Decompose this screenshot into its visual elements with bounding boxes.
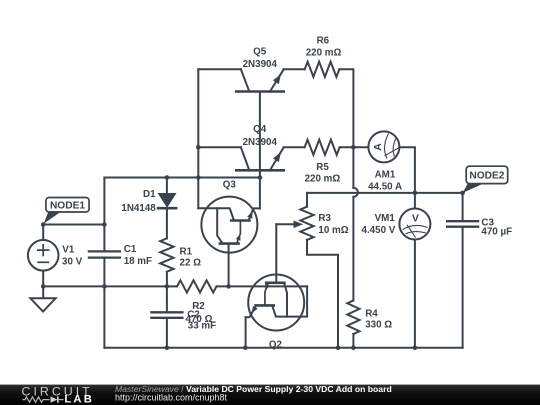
svg-text:Q2: Q2 — [269, 340, 283, 351]
label C2 name — [187, 309, 200, 320]
node NODE2 junction — [460, 191, 465, 196]
svg-text:A: A — [372, 143, 384, 151]
svg-text:NODE2: NODE2 — [469, 171, 504, 182]
transistor Q3 (darlington) — [198, 197, 260, 253]
logo CIRCUIT — [22, 384, 93, 398]
wire C2 top lead — [166, 286, 168, 311]
svg-text:R6: R6 — [317, 36, 330, 47]
node C2 bottom junction — [165, 345, 170, 350]
wire Q3 emitter top link — [259, 178, 261, 209]
label R2 value — [186, 314, 213, 325]
svg-text:NODE1: NODE1 — [50, 200, 85, 211]
wire V1 top lead — [42, 225, 44, 241]
svg-text:10 mΩ: 10 mΩ — [318, 225, 348, 236]
label R6 name — [317, 36, 330, 47]
svg-text:AM1: AM1 — [375, 170, 396, 181]
resistor R4 — [347, 301, 359, 335]
label Q5 2N3904 value — [243, 59, 278, 70]
svg-text:R4: R4 — [365, 308, 378, 319]
resistor R1 — [160, 238, 173, 271]
potentiometer R3 — [300, 207, 313, 240]
wire Q2 base lead — [275, 224, 277, 282]
label Q2 name — [269, 340, 283, 351]
wire Q4 collector lead — [198, 146, 241, 148]
wire hop over mid rail — [353, 188, 358, 197]
capacitor C3 — [447, 221, 478, 227]
label R1 name — [180, 247, 193, 258]
svg-text:33 mF: 33 mF — [188, 321, 216, 332]
svg-text:R1: R1 — [180, 247, 193, 258]
label R4 name — [365, 308, 378, 319]
label Q4 2N3904 value — [243, 137, 278, 148]
node base-rail junction — [258, 175, 263, 180]
resistor R2 — [177, 280, 217, 292]
wire D1 anode lead — [166, 178, 168, 194]
svg-text:1N4148: 1N4148 — [121, 203, 156, 214]
wire R3 top lead — [306, 193, 308, 207]
label C1 name — [124, 244, 137, 255]
label D1 name — [143, 189, 156, 200]
wire R1 bottom lead — [166, 272, 168, 287]
node NODE1 flag — [44, 198, 89, 224]
label AM1 name — [375, 170, 396, 181]
wire Q5 emitter to R6 — [284, 68, 305, 70]
svg-text:330 Ω: 330 Ω — [365, 319, 392, 330]
wire C3 top lead — [462, 193, 464, 220]
label D1 value — [121, 203, 156, 214]
wire C2 bottom lead — [166, 319, 168, 348]
ammeter AM1 — [368, 131, 400, 162]
wire hop to R4 — [352, 197, 354, 301]
svg-text:LAB: LAB — [64, 394, 94, 405]
svg-text:D1: D1 — [143, 189, 156, 200]
wire R4 bottom lead — [352, 334, 354, 348]
wire mid rail — [307, 192, 463, 194]
label R4 value — [365, 319, 392, 330]
svg-text:V1: V1 — [62, 245, 75, 256]
diode D1 — [158, 194, 176, 209]
node C1-NODE1 junction — [102, 222, 107, 227]
label R5 name — [316, 162, 329, 173]
wire VM1 bottom lead — [414, 240, 416, 348]
svg-text:470 µF: 470 µF — [481, 227, 512, 238]
svg-text:R5: R5 — [316, 162, 329, 173]
footer title line — [115, 384, 392, 394]
node VM1-rail junction — [413, 345, 418, 350]
wire collector column — [197, 69, 199, 208]
wire R3 bottom lead — [307, 240, 338, 348]
footer url line — [115, 392, 228, 402]
svg-text:220 mΩ: 220 mΩ — [305, 174, 341, 185]
wire C1 column upper — [103, 178, 105, 251]
svg-text:18 mF: 18 mF — [124, 256, 152, 267]
svg-text:22 Ω: 22 Ω — [180, 258, 202, 269]
label AM1 value — [368, 181, 402, 192]
svg-text:44.50 A: 44.50 A — [368, 181, 402, 192]
node VM1 top junction — [413, 191, 418, 196]
svg-text:V: V — [412, 213, 419, 225]
label V1 name — [62, 245, 75, 256]
transistor Q4 2N3904 — [236, 147, 284, 170]
label R6 value — [306, 48, 342, 59]
node R5-column junction — [351, 145, 356, 150]
wire Q3 base lead — [228, 245, 230, 287]
node collector-column junction — [196, 175, 201, 180]
capacitor C2 — [151, 312, 182, 318]
wire C1 column lower — [103, 259, 105, 348]
label R3 name — [318, 213, 331, 224]
wire bottom rail — [104, 347, 462, 349]
resistor R6 — [305, 62, 340, 77]
node R4-rail junction — [351, 345, 356, 350]
svg-text:R3: R3 — [318, 213, 331, 224]
wire R2 to Q2 collector — [217, 285, 308, 287]
transistor Q5 2N3904 — [236, 69, 284, 91]
svg-text:VM1: VM1 — [375, 213, 396, 224]
node V1 bottom junction — [41, 284, 46, 289]
label R3 value — [318, 225, 348, 236]
node NODE2 flag — [463, 166, 508, 193]
label C3 name — [481, 217, 494, 228]
node Q2 emitter-rail junction — [243, 345, 248, 350]
node C1 bottom-wire junction — [102, 284, 107, 289]
wire top rail — [104, 177, 260, 179]
wire Q4 emitter to R5 — [284, 146, 305, 148]
R3 wiper arrow — [276, 221, 303, 229]
svg-text:2N3904: 2N3904 — [243, 59, 278, 70]
node R3-rail junction — [336, 345, 341, 350]
wire Q5 collector lead — [198, 68, 241, 70]
wire R2 left lead — [167, 285, 177, 287]
wire C3 bottom lead — [462, 228, 464, 348]
svg-text:Q3: Q3 — [223, 180, 237, 191]
voltmeter VM1 — [399, 209, 430, 240]
svg-text:http://circuitlab.com/cnuph8t: http://circuitlab.com/cnuph8t — [115, 392, 228, 402]
ground — [30, 286, 55, 311]
node R1-R2 junction — [165, 284, 170, 289]
node Q4 collector tap — [196, 145, 201, 150]
node V1 top junction — [41, 222, 46, 227]
label R5 value — [305, 174, 341, 185]
label R1 value — [180, 258, 202, 269]
transistor Q2 (darlington) — [246, 275, 308, 331]
logo LAB — [64, 394, 94, 405]
wire Q2 emitter to rail — [245, 317, 247, 347]
wire Q5-Q4 base column — [259, 92, 261, 178]
label Q5 2N3904 name — [253, 47, 267, 58]
svg-text:30 V: 30 V — [62, 257, 83, 268]
wire NODE1 to C1 column — [43, 224, 104, 226]
label Q3 name — [223, 180, 237, 191]
wire V1 minus to R2 — [43, 285, 167, 287]
label C2 value — [188, 321, 216, 332]
label Q4 2N3904 name — [253, 124, 267, 135]
svg-text:C1: C1 — [124, 244, 137, 255]
svg-text:C2: C2 — [187, 309, 200, 320]
wire AM1 to down — [399, 147, 415, 193]
label C1 value — [124, 256, 152, 267]
node D1 top junction — [165, 175, 170, 180]
voltage source V1 — [28, 240, 59, 271]
svg-text:Q5: Q5 — [253, 47, 267, 58]
node Q3 base junction — [226, 284, 231, 289]
label VM1 value — [362, 225, 396, 236]
resistor R5 — [305, 140, 340, 155]
capacitor C1 — [89, 251, 120, 257]
svg-text:220 mΩ: 220 mΩ — [306, 48, 342, 59]
label R2 name — [192, 301, 205, 312]
wire V1 bottom lead — [42, 271, 44, 287]
label C3 value — [481, 227, 512, 238]
wire VM1 top lead — [414, 193, 416, 209]
svg-text:4.450 V: 4.450 V — [362, 225, 396, 236]
logo squiggle — [23, 396, 64, 402]
label VM1 name — [375, 213, 396, 224]
label V1 value — [62, 257, 83, 268]
footer bar — [0, 385, 540, 405]
wire R6 to down column — [339, 69, 353, 188]
wire D1 to R1 — [166, 208, 168, 238]
wire R5 to AM1 — [340, 146, 369, 148]
